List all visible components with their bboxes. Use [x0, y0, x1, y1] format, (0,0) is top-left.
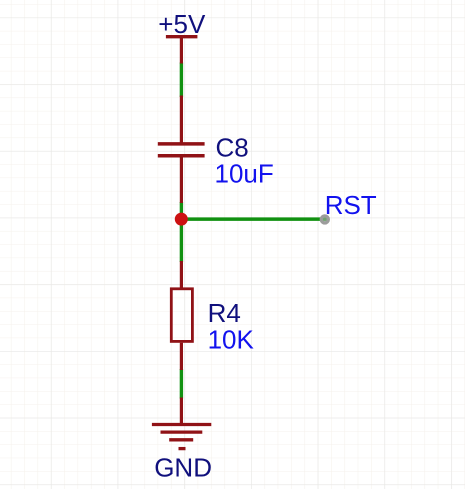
svg-text:10uF: 10uF — [215, 159, 274, 189]
wire — [180, 202, 183, 262]
svg-text:R4: R4 — [208, 298, 241, 328]
resistor R4 — [171, 261, 254, 370]
wire — [180, 63, 183, 98]
node junction — [175, 213, 188, 226]
capacitor C8 — [158, 96, 274, 204]
power +5V — [158, 9, 206, 64]
node RST — [321, 190, 377, 223]
svg-text:10K: 10K — [208, 325, 255, 355]
svg-text:+5V: +5V — [158, 9, 206, 39]
wire — [181, 217, 326, 221]
svg-text:RST: RST — [325, 190, 377, 220]
wire — [180, 369, 183, 399]
svg-text:GND: GND — [154, 452, 212, 482]
ground GND — [152, 398, 212, 483]
